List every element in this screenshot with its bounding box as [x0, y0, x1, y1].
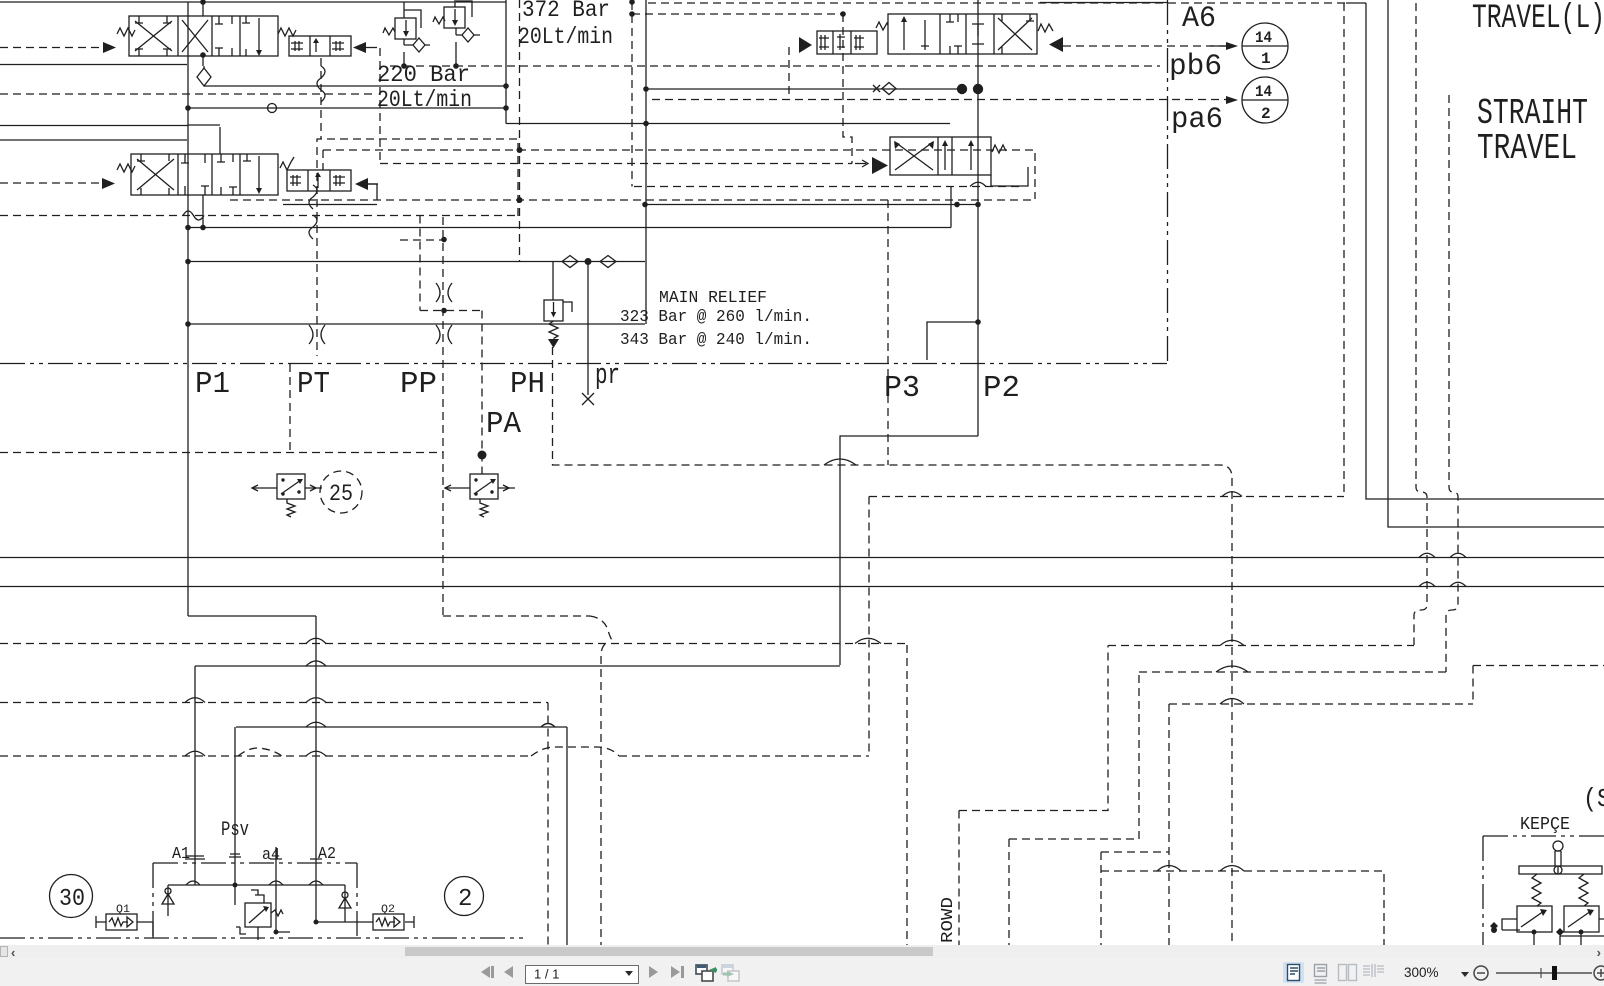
svg-text:20Lt/min: 20Lt/min: [518, 24, 613, 50]
svg-text:P1: P1: [195, 367, 230, 402]
svg-text:25: 25: [329, 481, 353, 507]
svg-text:A1: A1: [172, 845, 190, 864]
svg-text:P2: P2: [983, 371, 1020, 406]
svg-text:Q2: Q2: [381, 904, 395, 916]
svg-text:1 / 1: 1 / 1: [534, 967, 559, 982]
svg-text:TRAVEL: TRAVEL: [1477, 128, 1577, 169]
svg-text:pr: pr: [595, 359, 620, 392]
svg-text:343 Bar @ 240 l/min.: 343 Bar @ 240 l/min.: [620, 331, 812, 350]
svg-text:1: 1: [1261, 50, 1271, 68]
svg-text:pa6: pa6: [1171, 103, 1223, 137]
svg-text:220 Bar: 220 Bar: [377, 62, 470, 88]
svg-text:PA: PA: [486, 407, 521, 442]
svg-text:2: 2: [458, 886, 472, 913]
svg-text:14: 14: [1255, 29, 1272, 47]
svg-text:372 Bar: 372 Bar: [522, 0, 610, 23]
svg-text:PP: PP: [400, 367, 437, 402]
svg-text:ROWD: ROWD: [939, 897, 958, 943]
svg-text:PH: PH: [510, 367, 545, 402]
svg-text:300%: 300%: [1404, 965, 1439, 980]
svg-text:TRAVEL(L): TRAVEL(L): [1472, 0, 1604, 38]
svg-text:Psv: Psv: [221, 819, 249, 842]
svg-text:MAIN RELIEF: MAIN RELIEF: [659, 289, 767, 308]
svg-text:a4: a4: [262, 846, 280, 865]
svg-text:A2: A2: [318, 845, 336, 864]
svg-text:KEPÇE: KEPÇE: [1520, 815, 1570, 835]
svg-text:323 Bar @ 260 l/min.: 323 Bar @ 260 l/min.: [620, 308, 812, 327]
svg-text:14: 14: [1255, 83, 1272, 101]
svg-text:20Lt/min: 20Lt/min: [377, 87, 472, 113]
svg-text:30: 30: [59, 886, 85, 913]
svg-text:Q1: Q1: [116, 904, 130, 916]
svg-text:(SA: (SA: [1583, 784, 1604, 814]
svg-text:pb6: pb6: [1169, 50, 1222, 84]
svg-text:A6: A6: [1182, 2, 1216, 36]
svg-text:P3: P3: [884, 371, 920, 406]
svg-text:2: 2: [1261, 105, 1271, 123]
svg-text:PT: PT: [297, 367, 330, 402]
